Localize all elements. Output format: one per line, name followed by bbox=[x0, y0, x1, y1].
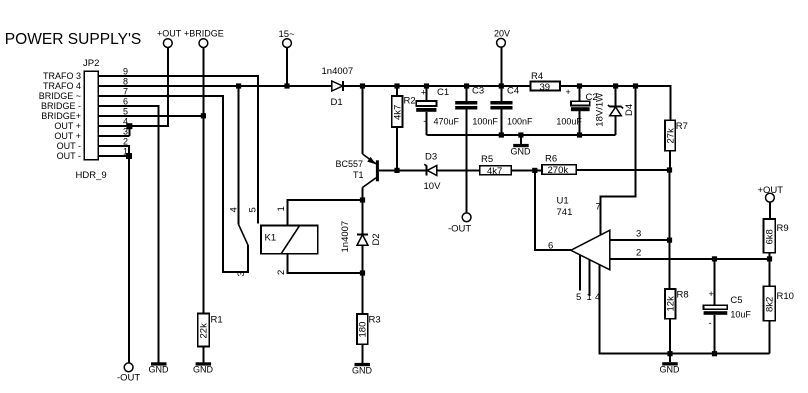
diode D2 1n4007 bbox=[340, 200, 382, 273]
relay switch arm bbox=[239, 225, 248, 246]
svg-text:470uF: 470uF bbox=[434, 117, 460, 127]
capacitor C4 100nF bbox=[490, 86, 533, 136]
ground under pin6 wire bbox=[149, 362, 170, 374]
ground under R8 bbox=[660, 354, 681, 375]
wire pin5 BRIDGE+ bbox=[98, 115, 203, 117]
wire pin1 down to -OUT terminal bbox=[98, 156, 129, 363]
svg-text:5: 5 bbox=[576, 292, 581, 303]
wire pin9 TRAFO3 to relay contact 5 bbox=[98, 76, 258, 224]
svg-text:8k2: 8k2 bbox=[765, 297, 776, 312]
connector pin name labels bbox=[39, 71, 81, 161]
svg-text:C3: C3 bbox=[472, 86, 484, 97]
svg-text:R3: R3 bbox=[369, 315, 381, 326]
wire 15~ terminal to rail bbox=[286, 48, 288, 86]
wire 20V terminal to rail bbox=[500, 48, 502, 86]
svg-text:180: 180 bbox=[358, 322, 369, 338]
svg-text:OUT -: OUT - bbox=[57, 151, 81, 161]
svg-text:R9: R9 bbox=[777, 223, 789, 234]
wire relay contact4 to rail bbox=[238, 86, 240, 225]
svg-text:OUT -: OUT - bbox=[57, 141, 81, 151]
svg-text:D4: D4 bbox=[624, 104, 635, 116]
connector pin numbers bbox=[123, 67, 128, 157]
wire bottom mid rail C1 to D4 bbox=[427, 134, 616, 136]
svg-text:10V: 10V bbox=[424, 181, 442, 192]
svg-text:6: 6 bbox=[548, 241, 553, 252]
wire R5 to R6 bbox=[511, 169, 542, 171]
svg-text:-: - bbox=[423, 116, 426, 126]
svg-text:741: 741 bbox=[557, 207, 573, 218]
terminal +BRIDGE bbox=[199, 39, 208, 48]
wire R7/R6 junction down to R8 bbox=[669, 170, 671, 289]
svg-text:-OUT: -OUT bbox=[117, 373, 140, 384]
resistor R7 bbox=[665, 120, 688, 170]
svg-text:OUT +: OUT + bbox=[54, 121, 81, 131]
svg-text:+OUT: +OUT bbox=[758, 185, 784, 196]
svg-text:R2: R2 bbox=[404, 95, 416, 106]
wire R6 right to R7/R8 vertical bbox=[576, 169, 669, 171]
svg-text:10uF: 10uF bbox=[730, 310, 751, 320]
resistor R3 bbox=[357, 273, 381, 363]
svg-text:BRIDGE -: BRIDGE - bbox=[41, 101, 81, 111]
svg-text:3: 3 bbox=[236, 271, 247, 276]
op-amp pin1 stub bbox=[589, 260, 591, 296]
resistor R8 bbox=[665, 240, 689, 354]
svg-text:C4: C4 bbox=[507, 86, 519, 97]
diode D4 zener 18V/1W bbox=[595, 86, 636, 135]
wire D3 to R5 bbox=[437, 169, 480, 171]
wire pin4 OUT+ to +OUT terminal bbox=[98, 48, 168, 126]
resistor R5 bbox=[480, 154, 511, 177]
svg-text:+BRIDGE: +BRIDGE bbox=[184, 29, 224, 39]
ground under R3 bbox=[352, 363, 373, 376]
svg-text:D2: D2 bbox=[371, 233, 382, 245]
svg-text:100nF: 100nF bbox=[472, 117, 498, 127]
svg-text:C5: C5 bbox=[730, 295, 742, 306]
svg-text:+: + bbox=[566, 87, 571, 97]
svg-text:3: 3 bbox=[636, 229, 641, 240]
connector JP2 body bbox=[84, 71, 98, 159]
wire pin2 with link to pin1 bbox=[98, 146, 129, 156]
wire pin3 bbox=[98, 135, 129, 137]
svg-text:U1: U1 bbox=[557, 196, 569, 207]
svg-text:-OUT: -OUT bbox=[448, 224, 471, 235]
terminal +OUT right bbox=[758, 185, 784, 202]
svg-text:15~: 15~ bbox=[279, 29, 296, 40]
svg-text:GND: GND bbox=[352, 366, 373, 376]
ground under R1 bbox=[193, 362, 214, 374]
svg-text:D1: D1 bbox=[331, 97, 343, 108]
wire -OUT mid terminal up to C3 bottom bbox=[466, 135, 468, 213]
resistor R6 bbox=[542, 154, 576, 177]
svg-text:4: 4 bbox=[595, 292, 600, 303]
svg-text:R5: R5 bbox=[481, 154, 493, 165]
svg-text:C1: C1 bbox=[437, 87, 449, 98]
op-amp pin3 wire bbox=[610, 239, 670, 241]
svg-text:2: 2 bbox=[636, 248, 641, 259]
capacitor C3 100nF bbox=[455, 86, 498, 136]
terminal 20V bbox=[497, 38, 506, 47]
svg-text:JP2: JP2 bbox=[83, 58, 99, 69]
capacitor C2 100uF bbox=[556, 86, 597, 135]
svg-text:22k: 22k bbox=[199, 323, 210, 339]
wire pin8 TRAFO4 main rail to R7 corner bbox=[98, 85, 332, 87]
svg-text:OUT +: OUT + bbox=[54, 131, 81, 141]
svg-text:6k8: 6k8 bbox=[765, 229, 776, 244]
resistor R2 bbox=[392, 86, 416, 170]
svg-text:100uF: 100uF bbox=[556, 117, 582, 127]
svg-text:BC557: BC557 bbox=[336, 159, 364, 169]
transistor T1 BC557 bbox=[336, 86, 379, 200]
svg-text:2: 2 bbox=[276, 270, 287, 275]
svg-text:39: 39 bbox=[540, 82, 551, 93]
svg-text:T1: T1 bbox=[353, 170, 364, 180]
svg-text:1: 1 bbox=[587, 292, 592, 303]
svg-text:+: + bbox=[421, 88, 426, 98]
svg-text:K1: K1 bbox=[265, 233, 277, 244]
svg-text:GND: GND bbox=[193, 365, 214, 375]
op-amp pin5 stub bbox=[579, 255, 581, 290]
terminal 15~ bbox=[283, 39, 292, 48]
svg-text:R6: R6 bbox=[545, 154, 557, 165]
svg-text:R10: R10 bbox=[777, 291, 794, 302]
svg-text:7: 7 bbox=[596, 202, 601, 213]
ground mid under C4 bbox=[511, 144, 532, 157]
op-amp pin7 wire to rail bbox=[600, 86, 635, 235]
svg-text:5: 5 bbox=[248, 207, 259, 212]
svg-text:D3: D3 bbox=[425, 152, 437, 163]
svg-text:4k7: 4k7 bbox=[393, 105, 404, 120]
svg-text:GND: GND bbox=[660, 365, 681, 375]
wire pin4 to pin3 link bbox=[128, 126, 130, 136]
svg-text:20V: 20V bbox=[494, 29, 510, 39]
svg-text:18V/1W: 18V/1W bbox=[595, 93, 606, 127]
svg-text:4: 4 bbox=[229, 207, 240, 212]
terminal +OUT top-left bbox=[163, 39, 172, 48]
wire pin6 BRIDGE- down to GND bbox=[98, 106, 159, 362]
resistor R10 bbox=[764, 259, 794, 354]
terminal -OUT mid bbox=[462, 213, 471, 222]
svg-text:1: 1 bbox=[276, 206, 287, 211]
svg-text:TRAFO 3: TRAFO 3 bbox=[43, 71, 81, 81]
svg-text:+: + bbox=[709, 289, 714, 299]
relay K1 coil bbox=[261, 226, 318, 254]
svg-text:TRAFO 4: TRAFO 4 bbox=[43, 81, 81, 91]
svg-text:+OUT: +OUT bbox=[157, 29, 182, 39]
svg-text:R7: R7 bbox=[676, 121, 688, 132]
svg-text:POWER SUPPLY'S: POWER SUPPLY'S bbox=[5, 31, 142, 48]
op-amp pin2 wire bbox=[610, 258, 770, 260]
svg-text:R1: R1 bbox=[211, 314, 223, 325]
wire GND stub below C4 bbox=[520, 135, 522, 144]
svg-text:GND: GND bbox=[149, 365, 170, 375]
svg-text:1n4007: 1n4007 bbox=[322, 66, 354, 77]
svg-text:4k7: 4k7 bbox=[487, 166, 502, 177]
wire R1 bottom to GND bbox=[202, 347, 204, 363]
diode D3 zener 10V bbox=[424, 152, 442, 193]
svg-text:BRIDGE ~: BRIDGE ~ bbox=[39, 91, 81, 101]
wire T1 base line to R6 junction bbox=[379, 169, 426, 171]
resistor R4 bbox=[531, 71, 561, 93]
svg-text:-: - bbox=[709, 318, 712, 328]
svg-text:270k: 270k bbox=[548, 165, 569, 176]
svg-text:R8: R8 bbox=[677, 290, 689, 301]
resistor R1 bbox=[198, 314, 223, 347]
capacitor C5 10uF bbox=[704, 259, 752, 354]
svg-text:100nF: 100nF bbox=[507, 117, 533, 127]
svg-text:12k: 12k bbox=[666, 296, 677, 312]
op-amp pin4 wire down to bottom rail bbox=[600, 265, 770, 354]
wire rail D1 cathode to corner R7 bbox=[344, 86, 670, 120]
relay pin2 wire bbox=[287, 254, 362, 273]
svg-text:1n4007: 1n4007 bbox=[340, 221, 351, 253]
svg-text:BRIDGE+: BRIDGE+ bbox=[41, 111, 81, 121]
svg-text:GND: GND bbox=[511, 147, 532, 157]
capacitor C1 470uF bbox=[416, 86, 459, 135]
wire R5 junction down to op-amp output pin6 bbox=[535, 170, 571, 250]
terminal -OUT bottom-left bbox=[117, 363, 140, 384]
svg-text:R4: R4 bbox=[531, 71, 543, 82]
wire pin7 BRIDGE~ down to relay contact 3 bbox=[98, 96, 248, 272]
wire +BRIDGE terminal down through pin5 to R1 bbox=[202, 48, 204, 314]
resistor R9 bbox=[764, 202, 789, 259]
op-amp U1 741 bbox=[557, 196, 610, 270]
svg-text:HDR_9: HDR_9 bbox=[76, 170, 107, 181]
relay pin1 wire bbox=[287, 200, 362, 226]
diode D1 1n4007 bbox=[322, 66, 354, 108]
